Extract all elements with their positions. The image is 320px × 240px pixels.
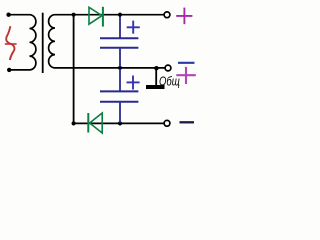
capacitor C1 xyxy=(100,17,138,68)
node: primary bottom terminal dot xyxy=(7,68,11,72)
diode VD2 (bottom, anode right) xyxy=(88,113,102,133)
node: junction common bus / ground xyxy=(154,66,158,70)
wire: primary top lead xyxy=(9,14,30,16)
transformer T1 core xyxy=(42,13,44,73)
node: junction bottom bus / C2 lead xyxy=(118,121,122,125)
polarity mark minus (blue, right of C1) xyxy=(178,62,195,64)
node: junction common bus / C1-C2 leads xyxy=(118,66,122,70)
wire: bottom bus to -V terminal xyxy=(74,122,164,124)
output mark minus (dark navy, bottom right) xyxy=(180,121,195,123)
transformer T1 primary winding xyxy=(30,15,36,70)
wire: vertical from top wire to bottom bus xyxy=(73,15,75,124)
wire: secondary top to +V terminal xyxy=(55,14,164,16)
terminal -V (open circle) xyxy=(164,120,170,126)
node: primary top terminal dot xyxy=(6,13,10,17)
output mark plus (magenta, middle right) xyxy=(176,67,196,84)
node: corner dot bottom bus xyxy=(72,121,76,125)
ground (Общ) symbol xyxy=(155,69,157,85)
output mark plus (magenta, top right) xyxy=(176,8,192,25)
transformer T1 secondary winding xyxy=(49,15,55,68)
diode VD1 (top, anode left) xyxy=(89,7,103,27)
AC source G1 (red sine symbol) xyxy=(5,26,17,60)
C1 polarity plus (blue) xyxy=(127,21,140,34)
C2 polarity plus (blue) xyxy=(127,76,140,90)
terminal common (open circle) xyxy=(165,65,171,71)
node: junction top wire / C1 lead xyxy=(118,13,122,17)
wire: common bus (secondary bottom to middle terminal) xyxy=(55,67,165,69)
wire: primary bottom lead xyxy=(9,69,29,71)
capacitor C2 xyxy=(100,69,138,123)
terminal +V (open circle) xyxy=(164,12,170,18)
node: junction top wire / vertical xyxy=(72,13,76,17)
